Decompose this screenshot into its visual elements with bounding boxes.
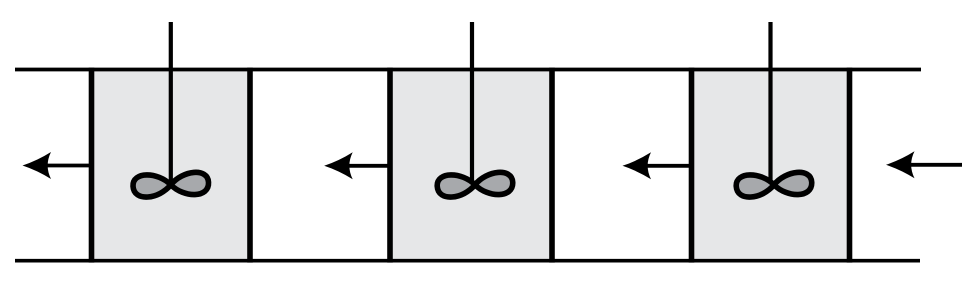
tank 1 left wall <box>89 68 95 263</box>
tank 1 fill <box>92 70 251 261</box>
tank 3 left wall <box>689 68 695 263</box>
impeller 1 <box>132 172 209 198</box>
arrow 2 shaft <box>346 164 391 168</box>
inlet arrow 4 head <box>886 151 915 178</box>
arrow 3 shaft <box>645 164 691 168</box>
outlet arrow 1 shaft <box>44 164 90 168</box>
bottom pipe line <box>15 259 920 263</box>
arrow 3 head <box>623 152 652 179</box>
arrow 2 head <box>324 152 353 179</box>
tank 2 right wall <box>549 68 555 263</box>
tank 1 right wall <box>247 68 253 263</box>
tank 2 fill <box>390 70 552 261</box>
impeller 3 <box>736 172 813 198</box>
stirrer shaft 2 <box>470 22 474 185</box>
tank 3 right wall <box>847 68 853 263</box>
top pipe line <box>15 68 921 72</box>
stirrer shaft 3 <box>768 22 772 185</box>
impeller 2 <box>437 172 514 198</box>
tank 2 left wall <box>387 68 393 263</box>
inlet arrow 4 shaft <box>908 163 962 167</box>
tank 3 fill <box>692 70 850 261</box>
outlet arrow 1 head <box>23 152 52 179</box>
stirrer shaft 1 <box>169 22 173 185</box>
